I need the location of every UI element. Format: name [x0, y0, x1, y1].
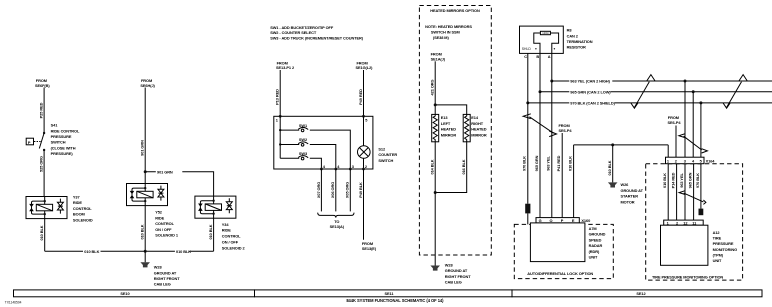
- svg-text:HEATED: HEATED: [471, 127, 486, 132]
- svg-text:SE11: SE11: [385, 291, 395, 296]
- svg-text:A: A: [548, 54, 551, 59]
- label R8 CAN 2 TERMINATION RESISTOR: [567, 28, 593, 50]
- switch SW2: [280, 137, 336, 169]
- wire 970 BLK to tpm: [700, 103, 702, 157]
- svg-text:CAN 2: CAN 2: [567, 33, 579, 38]
- pin mark A: [554, 48, 555, 49]
- svg-text:CONTROL: CONTROL: [155, 221, 174, 226]
- svg-text:MONITORING: MONITORING: [713, 247, 737, 252]
- ground W28: [140, 262, 150, 267]
- svg-text:SW3 - ADD TRUCK (INCREMENT/RES: SW3 - ADD TRUCK (INCREMENT/RESET COUNTER…: [270, 35, 364, 40]
- svg-text:SE1G(L2): SE1G(L2): [356, 65, 374, 70]
- svg-text:901 GRN: 901 GRN: [157, 169, 173, 174]
- svg-text:P41 RED: P41 RED: [556, 155, 561, 171]
- svg-text:TIRE PRESSURE MONITORING OPTIO: TIRE PRESSURE MONITORING OPTION: [652, 274, 723, 279]
- connector X164: [666, 157, 705, 164]
- lamp of S12: [358, 116, 371, 169]
- wire 014 BLK below E13: [429, 142, 435, 193]
- junction to right mirror: [434, 103, 437, 106]
- svg-text:901 GRN: 901 GRN: [140, 140, 145, 156]
- wire 963 YEL tpm below connector: [679, 164, 685, 220]
- pin 4 (SW3): [320, 164, 326, 171]
- label 970 BLK (CAN 2 SHIELD): [569, 100, 615, 105]
- switch SW3: [280, 151, 321, 169]
- wire 970 BLK tpm below connector: [695, 164, 701, 209]
- wire P14 RED to tpm: [675, 126, 677, 158]
- svg-text:SOLENOID 2: SOLENOID 2: [222, 245, 246, 250]
- svg-text:010 BLK: 010 BLK: [84, 249, 99, 254]
- svg-text:525 ORG: 525 ORG: [39, 156, 44, 172]
- svg-text:S41: S41: [51, 123, 59, 128]
- svg-text:ON / OFF: ON / OFF: [222, 239, 239, 244]
- svg-text:SE6F(B): SE6F(B): [35, 83, 50, 88]
- svg-text:SE6-P4: SE6-P4: [559, 128, 573, 133]
- node FROM SE6H(J): [140, 78, 155, 88]
- wire 970 BLK to radar shield: [522, 103, 528, 224]
- svg-text:SE6H(J): SE6H(J): [140, 83, 155, 88]
- label SW1/SW2/SW3 functions: [270, 25, 364, 40]
- node FROM SE1A(J): [431, 52, 446, 62]
- svg-text:010 BLK: 010 BLK: [568, 156, 573, 171]
- wire P13 RED to S12 pin 1: [275, 70, 281, 116]
- label A12 TIRE PRESSURE MONITORING UNIT: [713, 230, 737, 263]
- svg-text:RIDE: RIDE: [222, 228, 231, 233]
- svg-text:X164: X164: [706, 158, 716, 163]
- wire P14 RED tpm below connector: [671, 164, 677, 220]
- wire X06 ORG: [330, 169, 336, 211]
- pin mark B: [535, 48, 536, 49]
- label S41 RIDE CONTROL PRESSURE SWITCH: [51, 123, 80, 157]
- svg-text:ON / OFF: ON / OFF: [155, 227, 172, 232]
- svg-text:COUNTER: COUNTER: [378, 152, 397, 157]
- wire P49 RED to S12 pin 5: [358, 70, 364, 116]
- svg-text:010 BLK: 010 BLK: [140, 224, 145, 239]
- junction SW2 branch: [279, 143, 281, 145]
- svg-text:C: C: [524, 54, 527, 59]
- svg-text:P13 RED: P13 RED: [275, 89, 280, 105]
- svg-text:AUTO/DIFFERENTIAL LOCK OPTION: AUTO/DIFFERENTIAL LOCK OPTION: [527, 271, 593, 276]
- svg-text:SE1A(J): SE1A(J): [431, 56, 446, 61]
- svg-text:W26: W26: [621, 182, 630, 187]
- svg-text:CONTROL: CONTROL: [222, 234, 241, 239]
- svg-text:963 YEL (CAN 2 HIGH): 963 YEL (CAN 2 HIGH): [570, 79, 610, 84]
- svg-text:HEATED MIRRORS OPTION: HEATED MIRRORS OPTION: [430, 8, 480, 13]
- pin 4 (SW2): [334, 164, 340, 171]
- svg-text:SWITCH IN SSM: SWITCH IN SSM: [431, 29, 460, 34]
- svg-text:Y37: Y37: [73, 195, 80, 200]
- svg-text:P14 RED: P14 RED: [671, 172, 676, 188]
- svg-text:STARTER: STARTER: [621, 194, 639, 199]
- wire R8 pin B to CAN low bus: [539, 53, 541, 91]
- wire 963 YEL to radar: [546, 81, 552, 218]
- svg-text:970 BLK: 970 BLK: [695, 173, 700, 188]
- svg-text:UNIT: UNIT: [713, 258, 722, 263]
- heater element E14: [463, 114, 470, 141]
- svg-text:RADAR: RADAR: [589, 243, 603, 248]
- wire to ground W28 mirrors: [434, 193, 436, 266]
- solenoid Y37: [26, 197, 67, 219]
- wire R8 internal right to pin A: [550, 33, 558, 53]
- label Y37 RIDE CONTROL BOOM SOLENOID: [73, 195, 93, 223]
- svg-text:X06 ORG: X06 ORG: [330, 182, 335, 198]
- svg-text:SWITCH: SWITCH: [378, 158, 393, 163]
- svg-text:965 GRN: 965 GRN: [534, 155, 539, 171]
- svg-text:PRESSURE: PRESSURE: [51, 134, 72, 139]
- wire 010 BLK to tpm pin 1: [667, 145, 669, 157]
- node FROM SE1G(L2): [356, 60, 374, 70]
- wire CAN 2 low bus: [540, 91, 772, 93]
- label 963 YEL (CAN 2 HIGH): [569, 78, 612, 83]
- svg-text:CAB LEG: CAB LEG: [154, 282, 171, 287]
- svg-text:W28: W28: [154, 265, 163, 270]
- svg-text:010 BLK: 010 BLK: [176, 249, 191, 254]
- twist symbol on CAN bus right: [723, 75, 747, 109]
- wire 965 GRN to tpm: [692, 92, 694, 158]
- wire 010 BLK below Y52: [140, 206, 146, 252]
- wire to E14: [435, 105, 467, 115]
- svg-text:MIRROR: MIRROR: [471, 132, 487, 137]
- svg-text:TX1146504: TX1146504: [5, 300, 22, 304]
- switch SW1: [280, 123, 350, 169]
- label E13 LEFT HEATED MIRROR: [441, 115, 457, 137]
- svg-text:010 BLK: 010 BLK: [39, 225, 44, 240]
- pin 3 (SW1): [349, 164, 355, 171]
- svg-text:963 YEL: 963 YEL: [546, 156, 551, 171]
- svg-text:965 GRN (CAN 2 LOW): 965 GRN (CAN 2 LOW): [570, 89, 611, 94]
- svg-text:P49 BLK: P49 BLK: [358, 182, 363, 198]
- svg-text:RIGHT FRONT: RIGHT FRONT: [445, 274, 471, 279]
- twist symbol radar CAN wires: [523, 114, 556, 137]
- svg-text:963 YEL: 963 YEL: [679, 173, 684, 188]
- wire 010 BLK below Y34: [208, 218, 214, 251]
- svg-text:RIDE: RIDE: [73, 200, 82, 205]
- svg-text:SPEED: SPEED: [589, 237, 602, 242]
- svg-text:970 BLK: 970 BLK: [522, 156, 527, 171]
- shield termination at radar: [525, 204, 530, 214]
- svg-text:SE13(E): SE13(E): [362, 246, 377, 251]
- svg-text:Y34: Y34: [222, 222, 230, 227]
- svg-text:014 BLK: 014 BLK: [429, 159, 434, 174]
- heater element E13: [432, 114, 439, 141]
- svg-text:TIRE: TIRE: [713, 236, 722, 241]
- svg-text:421 ORG: 421 ORG: [429, 80, 434, 96]
- note heated mirrors switch: [425, 24, 472, 40]
- svg-text:010 BLK: 010 BLK: [607, 160, 612, 175]
- svg-text:016 BLK: 016 BLK: [461, 159, 466, 174]
- label 965 GRN (CAN 2 LOW): [569, 89, 611, 94]
- svg-text:P49 RED: P49 RED: [358, 89, 363, 105]
- pin 2 (lamp): [362, 164, 368, 171]
- svg-text:SHLD: SHLD: [522, 47, 532, 51]
- label W28 GROUND AT RIGHT FRONT CAB LEG (mirrors): [445, 262, 471, 284]
- svg-text:W28: W28: [445, 262, 454, 267]
- label S12 COUNTER SWITCH: [378, 146, 397, 162]
- wire X07 ORG: [316, 169, 322, 211]
- junction TPM tap CAN shield: [699, 101, 702, 104]
- svg-text:MOTOR: MOTOR: [621, 199, 635, 204]
- svg-text:SE6-P4: SE6-P4: [668, 120, 682, 125]
- wire internal supply bus: [279, 116, 281, 158]
- svg-text:SOLENOID 1: SOLENOID 1: [155, 233, 179, 238]
- svg-text:X07 ORG: X07 ORG: [316, 182, 321, 198]
- svg-text:E13: E13: [441, 115, 449, 120]
- label W26 GROUND AT STARTER MOTOR: [621, 182, 644, 204]
- wire P41 RED to radar: [556, 133, 562, 218]
- svg-text:BOOM: BOOM: [73, 212, 85, 217]
- node FROM SE6-P4 (tpm): [668, 115, 682, 125]
- wire R8 pin C to CAN shield bus: [527, 53, 529, 103]
- radar unit box A7M: [530, 223, 585, 262]
- wire R8 internal left to pin B: [534, 33, 541, 53]
- resistor element 120 ohm: [540, 31, 550, 35]
- label HEATED MIRRORS OPTION: [430, 8, 480, 13]
- svg-text:Y52: Y52: [155, 210, 163, 215]
- svg-text:X05 ORG: X05 ORG: [345, 182, 350, 198]
- wire R8 pin A to CAN high bus: [551, 53, 553, 81]
- svg-text:GROUND AT: GROUND AT: [154, 270, 177, 275]
- svg-text:A12: A12: [713, 230, 721, 235]
- solenoid Y52: [127, 184, 168, 206]
- wire 965 GRN tpm below connector: [688, 164, 694, 220]
- svg-text:SE10: SE10: [120, 291, 129, 296]
- wire 963 YEL to tpm: [684, 81, 686, 157]
- node FROM SE6-P4 (radar): [559, 123, 573, 133]
- heated mirrors option dashed box: [419, 6, 491, 256]
- svg-text:UNIT: UNIT: [589, 255, 598, 260]
- twist symbol tpm CAN wires lower: [679, 191, 706, 205]
- svg-text:SWITCH: SWITCH: [51, 140, 66, 145]
- node TO SE13(A): [330, 219, 345, 229]
- svg-text:E14: E14: [471, 115, 479, 120]
- solenoid Y34: [195, 196, 236, 218]
- svg-text:GROUND: GROUND: [589, 232, 606, 237]
- wire to ground W28: [144, 251, 146, 262]
- svg-text:CAB LEG: CAB LEG: [445, 280, 462, 285]
- svg-text:(SE38 M): (SE38 M): [433, 35, 450, 40]
- label Y52 RIDE CONTROL ON/OFF SOLENOID 1: [155, 210, 179, 238]
- svg-text:970 BLK (CAN 2 SHIELD): 970 BLK (CAN 2 SHIELD): [570, 101, 615, 106]
- wire P25 RED from SE6F(B) to S41: [39, 88, 45, 133]
- footer zone SE11: [255, 290, 513, 297]
- footer zone SE12: [512, 290, 762, 297]
- wire CAN 2 high bus: [552, 80, 772, 82]
- junction R8 on CAN shield: [526, 101, 529, 104]
- svg-text:RIDE CONTROL: RIDE CONTROL: [51, 128, 80, 133]
- wire 901 GRN from SE6H(J): [140, 88, 146, 184]
- svg-text:SOLENOID: SOLENOID: [73, 217, 93, 222]
- wire X05 ORG: [345, 169, 351, 211]
- label W28 GROUND AT RIGHT FRONT CAB LEG: [154, 265, 180, 287]
- svg-text:CONTROL: CONTROL: [73, 206, 92, 211]
- svg-text:HEATED: HEATED: [441, 127, 456, 132]
- svg-text:B: B: [536, 54, 539, 59]
- junction mirror grounds: [434, 191, 437, 194]
- junction at ground tap: [144, 250, 147, 253]
- junction TPM tap CAN low: [692, 90, 695, 93]
- svg-text:TERMINATION: TERMINATION: [567, 39, 593, 44]
- svg-text:LEFT: LEFT: [441, 121, 451, 126]
- svg-text:010 BLK: 010 BLK: [208, 224, 213, 239]
- footer zone SE10: [14, 290, 255, 297]
- wire 010 BLK below Y37: [39, 219, 45, 252]
- radar option dashed box: [514, 224, 613, 278]
- svg-text:RESISTOR: RESISTOR: [567, 45, 586, 50]
- junction TPM tap CAN high: [684, 80, 687, 83]
- shield termination at tpm: [699, 209, 704, 216]
- ground W28 mirrors: [430, 266, 440, 271]
- label E14 RIGHT HEATED MIRROR: [471, 115, 487, 137]
- svg-text:RIDE: RIDE: [155, 215, 164, 220]
- svg-text:SE13-P1 2: SE13-P1 2: [276, 65, 295, 70]
- junction R8 on CAN low: [539, 90, 542, 93]
- node FROM SE13-P1 2: [276, 60, 295, 70]
- wire 010 BLK tpm below connector: [662, 164, 668, 220]
- label Y34 RIDE CONTROL ON/OFF SOLENOID 2: [222, 222, 246, 250]
- wire 965 GRN to radar: [534, 92, 540, 218]
- svg-text:844K SYSTEM FUNCTIONAL SCHEMAT: 844K SYSTEM FUNCTIONAL SCHEMATIC (4 OF 1…: [346, 298, 444, 303]
- svg-text:X160: X160: [581, 218, 590, 223]
- wire 421 ORG: [429, 61, 435, 114]
- resistor R8 termination box: [520, 26, 564, 53]
- svg-text:RIGHT FRONT: RIGHT FRONT: [154, 276, 180, 281]
- wire 010 BLK ground bus: [45, 249, 214, 254]
- node FROM SE6F(B): [35, 78, 50, 88]
- svg-text:120Ω: 120Ω: [542, 31, 548, 35]
- svg-text:S12: S12: [378, 146, 386, 151]
- wire CAN 2 shield bus: [528, 102, 772, 104]
- wire 016 BLK below E14: [435, 142, 467, 193]
- svg-text:NOTE: HEATED MIRRORS: NOTE: HEATED MIRRORS: [425, 24, 472, 29]
- label A7M GROUND SPEED RADAR UNIT: [589, 226, 606, 260]
- twist symbol tpm CAN wires upper: [679, 134, 708, 153]
- connector tpm unit: [664, 220, 704, 226]
- svg-text:A7M: A7M: [589, 226, 597, 231]
- svg-text:PRESSURE): PRESSURE): [51, 151, 74, 156]
- svg-text:RIGHT: RIGHT: [471, 121, 483, 126]
- brace grouping wires to SE13(A): [318, 213, 354, 218]
- ground W26: [608, 182, 618, 187]
- tpm option dashed box: [646, 164, 743, 280]
- svg-text:PRESSURE: PRESSURE: [713, 241, 734, 246]
- wire 010 BLK to W26: [607, 145, 613, 183]
- switch box S12: [274, 116, 373, 169]
- svg-text:(RDR): (RDR): [589, 249, 600, 254]
- pressure switch S41: [39, 132, 45, 151]
- wire P49 BLK: [358, 169, 364, 240]
- svg-text:965 GRN: 965 GRN: [688, 172, 693, 188]
- junction SW1 branch: [279, 129, 281, 131]
- svg-text:P25 RED: P25 RED: [39, 102, 44, 118]
- svg-text:(TPM): (TPM): [713, 252, 724, 257]
- junction on 901 GRN: [144, 170, 147, 173]
- svg-text:GROUND AT: GROUND AT: [445, 268, 468, 273]
- wire 010 BLK to radar: [568, 145, 574, 218]
- svg-text:MIRROR: MIRROR: [441, 132, 457, 137]
- svg-text:(CLOSE WITH: (CLOSE WITH: [51, 145, 76, 150]
- pin 5: [362, 115, 368, 123]
- wire 010 BLK ground link: [574, 144, 669, 146]
- connector X160: [536, 218, 579, 224]
- twist symbol on CAN bus left: [631, 75, 655, 109]
- junction ground link: [611, 143, 614, 146]
- wire 901 GRN to Y34: [145, 169, 213, 196]
- tpm unit box A12: [661, 225, 708, 265]
- wire 525 ORG from S41 to Y37: [39, 150, 45, 197]
- node FROM SE13(E): [362, 241, 377, 251]
- svg-text:GROUND AT: GROUND AT: [621, 188, 644, 193]
- svg-text:010 BLK: 010 BLK: [662, 173, 667, 188]
- svg-text:SE13(A): SE13(A): [330, 224, 345, 229]
- pressure actuator P symbol for S41: [26, 138, 40, 145]
- svg-text:SE12: SE12: [636, 291, 646, 296]
- junction R8 on CAN high: [550, 80, 553, 83]
- pin 1: [276, 115, 282, 123]
